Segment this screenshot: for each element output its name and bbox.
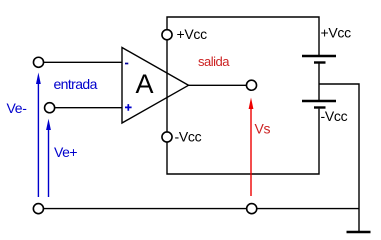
wire battery midpoint to right common rail [319,84,359,232]
wire top rail from +Vcc terminal to battery B1 [167,17,319,55]
terminal bottom left [33,204,43,214]
wire bottom rail left [44,208,247,210]
ground plate [347,231,371,233]
svg-text:A: A [136,69,154,99]
wire bottom rail right [257,208,359,210]
battery B2 -Vcc positive plate [302,100,336,102]
arrow Vs [249,98,254,197]
svg-text:salida: salida [198,54,230,69]
op-amp A triangle [122,48,189,124]
svg-text:-Vcc: -Vcc [175,129,202,145]
svg-text:Vs: Vs [255,121,271,137]
terminal input inverting [33,57,43,67]
svg-text:+Vcc: +Vcc [321,25,352,41]
arrow Ve+ [46,119,51,197]
op-amp inverting pin minus sign [125,63,128,65]
op-amp non-inverting pin plus sign [125,104,132,111]
wire +Vcc terminal through op-amp to -Vcc terminal [166,40,168,132]
svg-text:entrada: entrada [54,76,98,92]
svg-text:+Vcc: +Vcc [177,26,208,42]
terminal -Vcc [162,132,172,142]
terminal input non-inverting [45,103,55,113]
terminal output [246,80,256,90]
wire inverting input [44,61,122,63]
svg-text:Ve-: Ve- [7,100,28,116]
battery B1 +Vcc negative plate [314,61,326,63]
wire -Vcc terminal to battery B2 negative [167,109,319,174]
battery B1 +Vcc positive plate [302,55,336,57]
svg-text:-Vcc: -Vcc [321,108,348,124]
battery B2 -Vcc negative plate [314,106,326,108]
terminal bottom middle [247,204,257,214]
arrow Ve- [36,73,41,198]
wire non-inverting input [55,107,122,109]
svg-text:Ve+: Ve+ [54,144,77,160]
wire output [189,84,247,86]
terminal +Vcc [162,30,172,40]
wire between battery B1 and battery B2 [318,63,320,100]
